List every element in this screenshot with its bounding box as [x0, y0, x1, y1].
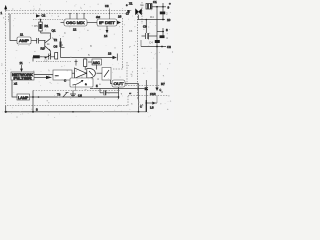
wire pin stub x75	[75, 84, 77, 91]
block A1 input amp	[17, 37, 31, 44]
resistor R6 small vertical upper mid	[84, 59, 87, 70]
block B5 (bottom left small)	[17, 94, 30, 100]
svg-text:C6: C6	[54, 45, 58, 49]
svg-text:T2: T2	[54, 38, 58, 42]
svg-text:T3: T3	[57, 93, 61, 97]
svg-text:C1: C1	[140, 3, 144, 7]
capacitor C9 (h, x146 y35)	[142, 20, 158, 40]
node junction	[38, 96, 40, 98]
wire mid y57.5 with arrow	[61, 54, 118, 61]
wire x33 pin stub down	[32, 91, 34, 113]
svg-text:C4: C4	[149, 41, 153, 45]
svg-text:C1: C1	[153, 0, 157, 4]
wire A2 to A3	[87, 22, 97, 24]
wire network down to B5	[12, 80, 17, 97]
wire V+ top right	[152, 6, 166, 8]
wire x157 lower + arrow end	[155, 88, 158, 92]
IC boundary outer dashed box	[6, 2, 168, 106]
svg-text:LAMP: LAMP	[18, 96, 29, 100]
node pin square on border	[127, 10, 129, 13]
wire Q3 to B9	[97, 72, 103, 74]
transistor Q1	[45, 39, 51, 52]
wire Q1 emitter down	[46, 51, 51, 58]
capacitor C10 (electrolytic bottom right)	[145, 80, 148, 112]
svg-text:R7: R7	[161, 82, 165, 86]
node arrow on top bus	[36, 14, 41, 17]
resistor R1 (vertical, top middle)	[39, 19, 42, 33]
node junction	[156, 46, 158, 48]
block B10 (mid filter box)	[53, 70, 72, 80]
svg-text:16: 16	[118, 15, 122, 19]
ground rail (bottom)	[6, 111, 90, 113]
svg-text:18: 18	[140, 103, 144, 107]
wire network out upper	[34, 74, 53, 76]
wire pin stub above A3 (to external cap)	[109, 9, 110, 20]
node junction	[118, 96, 120, 98]
svg-text:14: 14	[104, 34, 108, 38]
wire (vertical joiner x60)	[60, 38, 62, 58]
svg-text:C10: C10	[150, 92, 156, 96]
wire x163 mid	[162, 28, 164, 38]
wire h y19.5 right	[138, 19, 166, 21]
svg-text:LS: LS	[150, 106, 154, 110]
svg-text:13: 13	[108, 52, 112, 56]
cluster marks near x76 y62	[75, 60, 78, 66]
svg-text:R2: R2	[41, 47, 45, 51]
svg-text:11: 11	[20, 33, 23, 37]
wire B9 down to B7	[111, 80, 113, 84]
resistor R3 small vertical	[55, 53, 58, 60]
svg-text:15: 15	[129, 29, 133, 33]
capacitor C7 (h, mid bottom)	[100, 89, 119, 96]
block NETWORK B4	[11, 72, 34, 81]
svg-text:OSC MIX: OSC MIX	[66, 21, 85, 25]
wire network out lower with arrow	[34, 76, 52, 79]
wire dotted internal bus upper	[33, 19, 64, 21]
svg-text:C3: C3	[167, 45, 171, 49]
pin number texts along borders	[34, 3, 168, 107]
wire left edge down	[5, 106, 7, 112]
svg-text:B: B	[90, 44, 92, 48]
resistor R9 (filled, right ladder lower)	[160, 35, 165, 38]
svg-text:R5: R5	[34, 24, 38, 28]
wire h y88.5	[90, 88, 146, 90]
wire (amp output to C4)	[31, 40, 37, 42]
svg-text:+: +	[169, 2, 171, 6]
svg-text:C6: C6	[78, 94, 82, 98]
IC boundary inner dashed box	[9, 14, 161, 101]
wire arrow down from A3	[106, 26, 109, 34]
svg-text:C2: C2	[42, 14, 46, 18]
wire B7 right	[125, 83, 139, 85]
resistor R2 (filled horizontal, mid-left)	[33, 55, 49, 61]
node junction dots bottom	[129, 93, 131, 95]
wire h y46.5 right	[141, 46, 166, 48]
wire x146 thick lower	[145, 100, 147, 112]
scan speckle	[2, 1, 173, 118]
wire Q1 collector up	[41, 33, 51, 39]
node junction	[162, 6, 164, 8]
wire x138 down	[138, 84, 140, 112]
block B8 small	[92, 59, 102, 65]
node arrow out of A3 right	[117, 21, 121, 24]
wire right rail x157 upper	[156, 7, 158, 88]
capacitor C4	[37, 38, 46, 44]
wire (left input down to amp block)	[10, 14, 17, 41]
svg-text:AMP: AMP	[19, 39, 30, 43]
transistor Q3 (D-shape)	[87, 69, 96, 79]
block A2 (top center-left)	[61, 19, 88, 26]
svg-text:1k: 1k	[47, 42, 51, 46]
block B6 (level detector with curve)	[70, 78, 93, 87]
node junction	[32, 96, 34, 98]
op-amp U2 (triangle)	[75, 68, 87, 78]
wire right rail x163 upper	[162, 3, 164, 20]
wire arrow into network top	[20, 65, 23, 72]
wire B8 down into Q3	[96, 65, 98, 70]
node junction left	[5, 111, 7, 113]
block A3 (top center-right)	[97, 19, 117, 26]
capacitor C1 (electrolytic, top right)	[146, 4, 152, 10]
crystal X1 (top right bowtie)	[136, 9, 142, 20]
pin stubs above block A2	[70, 14, 84, 20]
capacitor C5	[49, 54, 55, 60]
node junction	[138, 111, 140, 113]
component blob on x157 y41	[155, 40, 160, 43]
node junction emitter	[45, 57, 47, 59]
transistor Q4 mark on bottom wire	[63, 93, 69, 98]
svg-text:C8: C8	[105, 4, 109, 8]
svg-text:FILTER: FILTER	[14, 77, 33, 81]
node junction	[32, 111, 34, 113]
svg-text:det: det	[96, 15, 100, 19]
wire B10 to U2	[72, 72, 75, 74]
svg-text:IF DET: IF DET	[99, 21, 116, 25]
component blob on x60	[60, 42, 62, 48]
wire dotted internal bus mid	[36, 61, 72, 63]
wire bottom long y97	[30, 96, 119, 98]
resistor R8 (filled, right ladder)	[160, 12, 165, 15]
svg-text:C9: C9	[143, 25, 147, 29]
node junction	[162, 31, 164, 33]
svg-text:12: 12	[73, 28, 77, 32]
diode D1 (bottom right small)	[145, 102, 157, 105]
node junction	[156, 6, 158, 8]
svg-text:11: 11	[20, 61, 23, 65]
wire v x118	[118, 87, 120, 99]
svg-text:R4: R4	[150, 15, 154, 19]
wire stub right	[61, 47, 65, 49]
block B9 (driver rect)	[102, 68, 111, 81]
block B7 (audio out)	[112, 80, 125, 87]
node junction	[161, 46, 163, 48]
wire stub x141	[140, 40, 142, 47]
svg-text:~~: ~~	[55, 74, 59, 78]
svg-text:X1: X1	[129, 2, 133, 6]
svg-text:x2: x2	[14, 82, 18, 86]
wire h y31.5 right	[157, 31, 164, 33]
svg-text:17: 17	[126, 12, 130, 16]
svg-text:AGC: AGC	[93, 61, 101, 65]
svg-text:R1: R1	[45, 24, 49, 28]
node junction	[162, 19, 164, 21]
node IN (top-left input terminal arrow)	[4, 5, 7, 11]
svg-text:10: 10	[167, 18, 171, 22]
svg-text:C5: C5	[44, 59, 48, 63]
wire B8 left stub	[88, 61, 92, 63]
ground symbol GND1 (x73)	[70, 91, 76, 98]
